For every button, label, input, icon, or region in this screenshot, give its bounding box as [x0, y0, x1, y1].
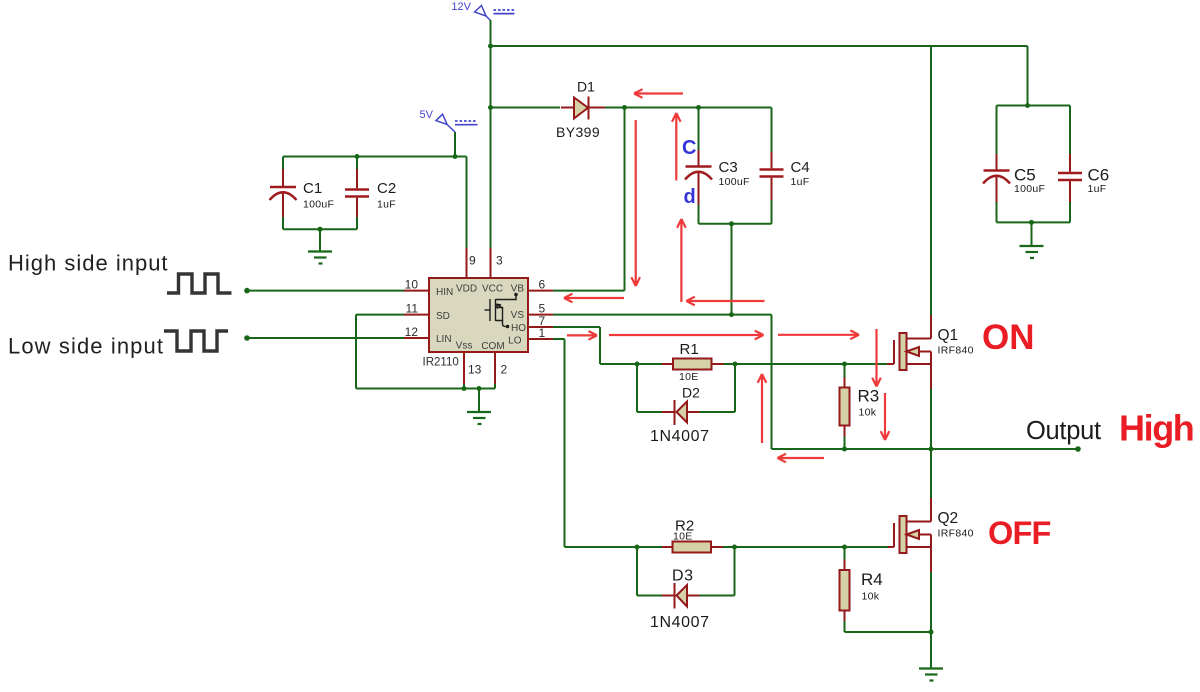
pin 3 VCC stub	[490, 248, 492, 278]
svg-text:R3: R3	[858, 387, 880, 406]
svg-text:COM: COM	[481, 341, 504, 352]
diode D1 BY399	[556, 79, 605, 141]
annotation arrow up below C3 (discharge)	[677, 219, 686, 302]
svg-text:10: 10	[405, 278, 419, 292]
node LIN input terminal	[244, 335, 250, 341]
resistor R3 10k	[840, 378, 880, 437]
wire C1/C2 top rail	[283, 156, 467, 158]
annotation arrow up beside C (charge)	[672, 113, 681, 181]
ground C5/C6	[1020, 246, 1044, 258]
svg-text:1uF: 1uF	[377, 199, 396, 211]
wire C3/C4 bottom	[699, 223, 772, 225]
low side waveform glyph	[164, 331, 228, 351]
wire C1/C2 bottom rail	[283, 228, 357, 230]
power terminal 5V	[420, 109, 478, 132]
resistor R4 10k	[840, 560, 883, 622]
wire VB vertical	[624, 108, 626, 291]
wire C1 bottom stub	[282, 217, 284, 229]
annotation arrow right over R1	[609, 331, 764, 340]
wire ground stem IC	[478, 389, 480, 413]
svg-text:C3: C3	[719, 159, 738, 176]
wire HO to R1	[600, 363, 662, 365]
annotation arrow up from output row	[758, 374, 767, 443]
node R2 right / D3 branch	[732, 545, 737, 550]
capacitor C6 1uF	[1058, 154, 1109, 202]
svg-text:VB: VB	[511, 284, 525, 295]
svg-text:Q1: Q1	[938, 327, 959, 344]
svg-text:10k: 10k	[859, 407, 877, 419]
svg-text:12: 12	[405, 325, 419, 339]
svg-text:High side input: High side input	[8, 251, 169, 276]
svg-text:100uF: 100uF	[719, 176, 750, 188]
wire C6 bottom stub	[1069, 202, 1071, 222]
wire D1 cathode to C4 corner	[605, 107, 772, 109]
svg-text:VDD: VDD	[456, 284, 477, 295]
svg-text:Q2: Q2	[938, 510, 959, 527]
capacitor C5 100uF electrolytic	[983, 154, 1045, 202]
wire R2 to Q2 gate	[723, 546, 888, 548]
wire HIN input	[247, 290, 404, 292]
pin 12 LIN stub	[404, 337, 429, 339]
ground IC Vss/COM	[467, 412, 491, 424]
diode D3 1N4007	[650, 568, 710, 632]
ground C1/C2	[308, 252, 332, 264]
svg-text:11: 11	[406, 302, 419, 316]
wire LO pin 1	[553, 338, 565, 340]
wire HO drop	[599, 327, 601, 364]
svg-text:Output: Output	[1026, 417, 1101, 445]
svg-text:SD: SD	[436, 311, 450, 322]
wire C5 top stub	[996, 106, 998, 155]
node C5/C6 top feed	[1025, 103, 1030, 108]
pin 7 HO stub	[528, 326, 553, 328]
node Vss ground row	[462, 386, 467, 391]
wire 12V vertical to VCC	[490, 20, 492, 248]
wire ground stem C5/C6	[1031, 222, 1033, 246]
wire D3 right branch	[734, 547, 736, 596]
wire D1 row left	[491, 107, 561, 109]
svg-text:10E: 10E	[673, 531, 693, 543]
transistor Q1 IRF840	[887, 315, 974, 389]
svg-text:Vss: Vss	[456, 341, 473, 352]
wire 5V stem	[454, 132, 456, 157]
annotation arrow down into VB	[631, 120, 640, 286]
wire Q1 drain from top bus	[930, 46, 932, 315]
diode D2 1N4007	[650, 385, 710, 446]
wire C4 bottom stub	[771, 200, 773, 224]
wire top bus	[491, 45, 1028, 47]
node C3/C4 bottom feed	[729, 221, 734, 226]
svg-text:1: 1	[539, 326, 546, 340]
pin 11 SD stub	[404, 314, 429, 316]
node R1 right / D2 branch	[733, 362, 738, 367]
svg-text:1N4007: 1N4007	[650, 428, 710, 445]
wire D3 right lead	[700, 595, 735, 597]
wire R3 top stub	[844, 364, 846, 378]
resistor R1 10E	[662, 341, 724, 383]
wire C2 top stub	[356, 157, 358, 170]
wire C2 bottom stub	[356, 217, 358, 229]
wire VS pin 5 row	[553, 314, 772, 316]
op-amp U1 IR2110 body	[429, 278, 528, 352]
capacitor C2 1uF	[345, 169, 396, 217]
svg-text:R1: R1	[680, 341, 699, 358]
svg-text:VS: VS	[511, 310, 525, 321]
svg-text:D1: D1	[577, 79, 595, 95]
svg-text:ON: ON	[982, 318, 1035, 357]
svg-text:VCC: VCC	[482, 284, 503, 295]
svg-text:Low side input: Low side input	[8, 334, 164, 359]
annotation arrow down beside R3	[881, 393, 890, 440]
svg-text:LO: LO	[508, 336, 522, 347]
svg-text:10k: 10k	[862, 591, 880, 603]
svg-text:BY399: BY399	[556, 124, 600, 140]
wire Q1 source to output row	[930, 389, 932, 449]
annotation arrow left above bootstrap	[634, 89, 683, 98]
wire C5 bottom stub	[996, 202, 998, 222]
svg-text:IR2110: IR2110	[423, 357, 459, 369]
annotation arrow left below C3 bottom	[686, 297, 764, 306]
wire R4 top stub	[844, 547, 846, 560]
node R2 left / D3 branch	[635, 545, 640, 550]
svg-text:High: High	[1119, 408, 1193, 449]
pin 5 VS stub	[528, 314, 553, 316]
svg-text:13: 13	[468, 363, 482, 377]
wire C3 bottom stub	[698, 205, 700, 224]
wire D2 left lead	[637, 411, 662, 413]
node VB bootstrap junction	[622, 105, 627, 110]
svg-text:1uF: 1uF	[1088, 183, 1107, 195]
wire SD to COM row	[356, 388, 495, 390]
svg-text:C4: C4	[791, 159, 810, 176]
svg-text:C5: C5	[1014, 166, 1036, 185]
pin 10 HIN stub	[404, 290, 429, 292]
wire C6 top stub	[1069, 106, 1071, 155]
pin 9 VDD stub	[466, 248, 468, 278]
node output terminal	[1075, 446, 1081, 452]
svg-text:5V: 5V	[420, 109, 434, 121]
wire VS vertical to output row	[771, 315, 773, 449]
wire R4 bottom stub	[844, 621, 846, 632]
capacitor C1 100uF electrolytic	[270, 169, 335, 217]
node R3 bottom	[842, 447, 847, 452]
node 5V junction	[453, 154, 458, 159]
svg-text:6: 6	[539, 278, 546, 292]
node C2 top	[355, 154, 360, 159]
wire SD pin lead	[356, 314, 404, 316]
pin 1 LO stub	[528, 338, 553, 340]
wire D3 left branch	[636, 547, 638, 596]
svg-text:HIN: HIN	[436, 287, 453, 298]
wire COM riser	[494, 384, 496, 389]
wire C5/C6 top rail	[997, 105, 1071, 107]
pin 2 COM stub	[494, 352, 496, 384]
high side waveform glyph	[167, 274, 232, 293]
wire D2 right branch	[734, 364, 736, 412]
wire Q2 drain from output row	[930, 449, 932, 498]
node 12V / D1 junction	[488, 105, 493, 110]
svg-text:HO: HO	[511, 323, 526, 334]
node VS junction	[729, 312, 734, 317]
wire bootstrap mid vertical to VS	[731, 224, 733, 315]
ground Q2 source	[919, 669, 943, 681]
wire D2 left branch	[636, 364, 638, 412]
svg-text:IRF840: IRF840	[938, 345, 974, 357]
svg-text:3: 3	[496, 254, 503, 268]
svg-text:R4: R4	[861, 570, 883, 589]
node Q2 source / R4 / ground	[929, 630, 934, 635]
wire VB pin 6 horizontal	[553, 290, 625, 292]
wire R1 to Q1 gate	[724, 363, 888, 365]
wire LIN input	[247, 337, 404, 339]
svg-text:1N4007: 1N4007	[650, 614, 710, 631]
svg-text:D2: D2	[682, 385, 700, 401]
wire R3 bottom stub	[844, 437, 846, 450]
svg-text:OFF: OFF	[988, 515, 1051, 551]
wire R4 bottom row	[845, 631, 932, 633]
wire C5/C6 bottom rail	[997, 221, 1071, 223]
svg-text:C: C	[682, 137, 696, 159]
node R4 top	[842, 545, 847, 550]
svg-text:LIN: LIN	[436, 334, 452, 345]
node C1/C2 ground	[318, 227, 323, 232]
annotation arrow right from LO	[567, 331, 597, 340]
annotation arrow left to VB pin	[564, 294, 624, 303]
wire ground stem Q2	[930, 632, 932, 668]
svg-text:10E: 10E	[679, 371, 699, 383]
wire D2 right lead	[700, 411, 736, 413]
wire C3 top stub	[698, 108, 700, 151]
wire C4 top stub	[771, 108, 773, 153]
node C3 top	[696, 105, 701, 110]
node R1 left / D2 branch	[635, 362, 640, 367]
pin 6 VB stub	[528, 290, 553, 292]
node C5/C6 ground	[1029, 220, 1034, 225]
svg-text:2: 2	[501, 363, 508, 377]
svg-text:D3: D3	[672, 568, 694, 585]
wire output row	[772, 448, 1079, 450]
wire HO pin 7	[553, 326, 600, 328]
node IC ground stem	[477, 386, 482, 391]
node HIN input terminal	[244, 288, 250, 294]
svg-text:C1: C1	[303, 180, 322, 197]
svg-text:100uF: 100uF	[1014, 183, 1045, 195]
wire Q2 source down	[930, 572, 932, 632]
svg-text:12V: 12V	[451, 1, 471, 13]
annotation arrow down at Q1 gate	[872, 329, 881, 387]
annotation arrow right to Q1 gate	[778, 330, 859, 339]
capacitor C4 1uF	[760, 152, 810, 200]
svg-text:100uF: 100uF	[303, 199, 334, 211]
wire top bus drop to C5/C6	[1027, 46, 1029, 106]
node output / Q1 source / Q2 drain	[929, 447, 934, 452]
IR2110 internal symbol	[485, 293, 518, 329]
svg-text:C6: C6	[1088, 166, 1110, 185]
wire VDD drop	[466, 157, 468, 249]
wire SD drop	[355, 315, 357, 389]
wire C1 top stub	[282, 157, 284, 170]
svg-text:1uF: 1uF	[791, 176, 810, 188]
wire ground stem C1/C2	[319, 229, 321, 251]
svg-text:9: 9	[469, 254, 476, 268]
wire Vss riser	[463, 384, 465, 389]
node top bus at 12V	[488, 44, 493, 49]
annotation arrow left below output row	[778, 454, 825, 463]
wire D3 left lead	[637, 595, 662, 597]
resistor R2 10E	[662, 518, 723, 553]
capacitor C3 100uF electrolytic	[685, 150, 750, 205]
power terminal 12V	[451, 1, 514, 21]
svg-text:C2: C2	[377, 180, 396, 197]
transistor Q2 IRF840	[888, 498, 974, 572]
svg-text:d: d	[684, 186, 696, 208]
svg-text:IRF840: IRF840	[938, 528, 974, 540]
wire LO drop to R2 row	[564, 339, 566, 547]
pin 13 Vss stub	[463, 352, 465, 384]
node R3 top	[842, 362, 847, 367]
wire LO row to R2	[565, 546, 663, 548]
